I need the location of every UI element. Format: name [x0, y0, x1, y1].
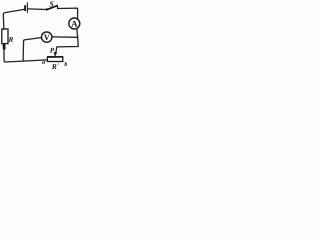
- wire lower-right horizontal to slider corner: [57, 46, 78, 47]
- resistor R box: [2, 29, 8, 44]
- wire bottom from left corner to rheostat terminal a: [4, 44, 47, 62]
- label R' of rheostat: [52, 64, 57, 69]
- label P: [50, 48, 54, 53]
- ammeter circle: [69, 18, 80, 29]
- rheostat R' box: [47, 56, 63, 58]
- ammeter letter A: [71, 21, 77, 27]
- switch S pivot dot: [46, 8, 48, 10]
- voltmeter letter V: [44, 35, 50, 40]
- battery short thick negative plate: [24, 5, 26, 11]
- label a terminal: [42, 61, 45, 64]
- switch right contact hook: [56, 6, 59, 9]
- ink blob on wire below resistor: [3, 44, 6, 50]
- battery long thin positive plate: [26, 2, 28, 12]
- wire voltmeter right lead to junction: [52, 36, 78, 38]
- wire voltmeter left lead and corner down: [23, 38, 42, 62]
- label S: [50, 1, 54, 6]
- wire switch to top-right corner down to ammeter: [58, 8, 78, 19]
- voltmeter circle: [42, 32, 52, 42]
- rheostat slider shaft: [56, 47, 57, 53]
- rheostat slider arrowhead: [54, 52, 58, 57]
- wire top-left corner to battery: [3, 9, 24, 29]
- label b terminal: [64, 62, 67, 66]
- switch S blade: [47, 6, 57, 10]
- wire ammeter bottom down to lower-right corner: [77, 29, 78, 46]
- wire battery to switch: [28, 8, 47, 11]
- label R: [8, 37, 13, 42]
